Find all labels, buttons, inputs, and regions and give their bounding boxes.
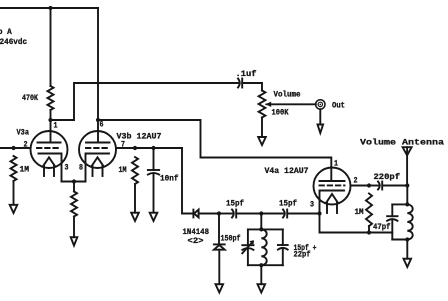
wire cathode V4a to tank [320,214,393,233]
svg-text:Out: Out [332,102,345,111]
svg-text:8: 8 [79,164,83,173]
tube V3a plate bar [38,142,61,144]
capacitor C 15pf b [279,199,297,218]
ground 1M V3a [10,205,18,213]
node bottom tank bottom [259,263,263,267]
wire 220pf to antenna line [382,185,407,187]
pin 6 label [100,121,104,130]
wire D2 to ground [218,250,220,285]
wire Out ground lead [319,109,321,124]
label To A [0,28,12,37]
svg-text:15pf: 15pf [279,199,297,209]
pin 1 label [54,122,58,131]
node bottom tank top [259,227,263,231]
capacitor C 15pf a [226,199,244,218]
capacitor C 150pf variable [221,229,254,265]
wire 1M V3b to ground [134,184,136,213]
resistor R 1M grid V3b [119,157,139,184]
tube V4a grid dashes [320,184,345,186]
diode D1 1N4148 [193,210,198,218]
pin 3 label V4a [310,201,314,210]
node right tank top [405,202,409,206]
pin 2 label [24,141,28,150]
tube V3a envelope [17,129,68,169]
node cathode junction [72,179,76,183]
svg-text:10nf: 10nf [160,174,179,184]
wire bottom tank bottom rail [248,264,283,266]
wire cathodes join [62,181,86,183]
wire B+ to 470K [50,8,52,86]
node detector [217,211,221,215]
node B+ junction [48,6,52,10]
tube V4a plate bar [320,180,345,182]
pin 8 label [79,164,83,173]
svg-text:+246vdc: +246vdc [0,37,27,47]
svg-text:3: 3 [65,164,69,173]
svg-text:V4a 12AU7: V4a 12AU7 [265,167,309,176]
capacitor C 220pf [374,172,401,190]
svg-text:22pf: 22pf [294,250,311,260]
wire right tank to ground [406,240,408,259]
resistor Rk cathode [71,192,77,217]
wire node to 15pf a [219,213,232,215]
svg-text:100K: 100K [272,109,289,118]
svg-text:1: 1 [54,122,58,131]
wire grid down to detector [182,148,192,214]
svg-text:Volume Antenna: Volume Antenna [360,138,444,148]
pin 7 label [121,141,125,150]
tube V3a grid dashes [37,147,61,149]
tube V3a heater [43,157,54,176]
tube V3b envelope [79,131,162,168]
wire +246vdc rail top [0,7,98,9]
antenna symbol [403,147,412,185]
svg-text:1M: 1M [20,166,30,175]
wire 15pf b to cathode V4a [287,213,319,215]
ground pot [258,137,266,145]
node antenna line [405,183,409,187]
connector Out jack [316,100,345,111]
svg-text:47pf: 47pf [373,222,391,232]
ground 10nf [150,213,158,221]
potentiometer Volume 100K [259,90,301,118]
svg-text:6: 6 [100,121,104,130]
tube V3b heater [92,157,103,176]
wire grid V3b pin7 [116,147,182,149]
node 10nf [151,146,155,150]
wire rail to V3b plate [97,8,99,120]
svg-text:1: 1 [334,160,338,169]
wire node to D2 [218,214,220,245]
svg-text:Volume: Volume [274,90,301,100]
wire 1M to ground [13,181,15,205]
wire 1M V4a to bottom wire [368,226,370,233]
svg-text:2: 2 [354,177,358,186]
tube V4a heater [326,194,337,213]
wire V3b plate to V4a plate [98,120,331,181]
ground Out [318,125,324,134]
wire right tank top rail [392,203,407,205]
wire pot bottom [261,118,263,138]
resistor R 1M grid V3a [11,156,30,181]
wire plate lead V3a pin1 [50,120,52,143]
wire 10nf to ground [153,174,155,213]
wire into bottom tank [260,214,262,230]
node tank top [259,211,263,215]
wire wiper to Out [266,102,316,107]
ground right tank [404,259,412,267]
capacitor C .1uf [236,69,257,88]
svg-text:1M: 1M [119,166,127,175]
capacitor C 10nf [148,148,179,184]
node 1M bottom [367,230,371,234]
label 246vdc [0,37,27,47]
tube V3a cathode [39,154,62,182]
tube V3b cathode [86,154,110,182]
wire Rk to ground [73,217,75,238]
wire plate lead V3b pin6 [97,120,99,143]
node V3b plate [96,118,100,122]
wire right tank bottom rail [392,239,407,241]
wire cathode to Rk [73,182,75,192]
tube V3b grid dashes [86,147,110,149]
ground bottom tank [258,284,266,292]
svg-text:1M: 1M [355,208,364,217]
pin 2 label V4a [354,177,358,186]
label Volume Antenna [360,138,444,148]
node V3a plate [48,118,52,122]
inductor L volume tank [407,204,412,239]
wire 470K to plate node [50,110,52,120]
wire grid V3a pin2 [0,147,31,149]
svg-text:3: 3 [310,201,314,210]
tube V3b plate bar [86,142,110,144]
node right tank bottom [405,237,409,241]
tube V4a envelope [265,167,351,205]
tube V4a cathode [320,191,345,214]
pin 3 label [65,164,69,173]
svg-text:.1uf: .1uf [236,69,257,79]
resistor R 470K [22,86,54,110]
wire tank to ground [260,265,262,284]
wire antenna to tank [406,186,408,205]
capacitor C 15pf+22pf [278,229,317,265]
svg-text:1N4148: 1N4148 [183,228,210,237]
svg-text:<2>: <2> [188,237,204,246]
svg-text:470K: 470K [22,94,38,103]
wire plate node to coupling cap [51,83,239,120]
ground 1M V3b [131,213,139,221]
wire node to 15pf b [261,213,283,215]
node cathode V4a [317,211,321,215]
pin 1 label V4a [334,160,338,169]
svg-text:220pf: 220pf [374,172,401,182]
ground Rk [71,237,78,245]
capacitor C 47pf [373,204,398,239]
node grid V3a [11,146,15,150]
wire D1 to node [199,213,219,215]
diode D2 1N4148 [183,228,225,250]
node 1M V3b [133,146,137,150]
svg-text:150pf: 150pf [221,234,241,244]
wire bottom tank top rail [248,228,283,230]
resistor R 1M grid V4a [355,194,373,227]
node grid V4a [367,183,371,187]
wire 15pf a to tank [236,213,261,215]
inductor L bottom tank [261,229,266,265]
wire cap to pot [242,83,262,91]
svg-text:V3a: V3a [17,129,30,138]
wire node to 220pf [369,185,378,187]
svg-text:To A: To A [0,28,12,37]
ground D2 [216,284,224,292]
svg-text:15pf: 15pf [226,199,244,209]
wire grid V4a pin2 [351,185,370,187]
